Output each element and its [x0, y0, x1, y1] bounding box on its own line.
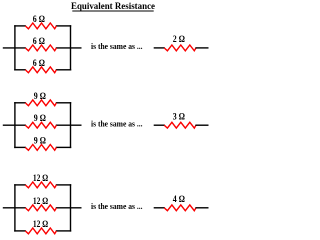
svg-text:12 Ω: 12 Ω	[33, 219, 49, 230]
resistor Req3 4-ohm zigzag	[164, 205, 196, 211]
title underline	[72, 10, 153, 12]
wire bottom branch right group1	[56, 69, 71, 71]
wire top branch left group3	[14, 184, 26, 186]
resistor R1 6-ohm zigzag top branch	[25, 23, 56, 29]
resistor R7 12-ohm zigzag top branch	[25, 182, 56, 188]
resistor R8 12-ohm zigzag middle branch	[25, 205, 56, 211]
wire bottom branch left group3	[14, 230, 26, 232]
wire middle branch right + right lead group1	[56, 47, 82, 49]
wire top branch right group2	[56, 102, 71, 104]
wire right rail group1	[70, 25, 72, 70]
svg-text:Equivalent Resistance: Equivalent Resistance	[71, 2, 155, 12]
svg-text:12 Ω: 12 Ω	[33, 173, 49, 184]
wire left rail group1	[14, 25, 16, 70]
wire left lead equivalent resistor Req2	[154, 124, 165, 126]
svg-text:is the same as ...: is the same as ...	[91, 202, 143, 211]
wire right lead equivalent resistor Req2	[195, 124, 208, 126]
wire bottom branch right group3	[56, 230, 71, 232]
wire right lead equivalent resistor Req3	[195, 207, 208, 209]
resistor R6 9-ohm zigzag bottom branch	[25, 145, 56, 151]
svg-text:9 Ω: 9 Ω	[34, 113, 47, 124]
svg-text:6 Ω: 6 Ω	[33, 14, 46, 25]
svg-text:2 Ω: 2 Ω	[173, 34, 186, 45]
wire top branch left group1	[14, 25, 26, 27]
wire left lead group1	[3, 47, 26, 49]
resistor R9 12-ohm zigzag bottom branch	[25, 228, 56, 234]
svg-text:is the same as ...: is the same as ...	[91, 120, 143, 129]
wire bottom branch left group2	[14, 146, 26, 148]
resistor R5 9-ohm zigzag middle branch	[25, 122, 56, 128]
resistor R4 9-ohm zigzag top branch	[25, 100, 56, 106]
resistor R2 6-ohm zigzag middle branch	[25, 45, 56, 51]
wire left lead group2	[3, 124, 26, 126]
wire right lead equivalent resistor Req1	[195, 47, 208, 49]
resistor Req2 3-ohm zigzag	[164, 122, 196, 128]
wire top branch left group2	[14, 102, 26, 104]
wire right rail group2	[70, 102, 72, 148]
wire middle branch right + right lead group2	[56, 124, 82, 126]
svg-text:6 Ω: 6 Ω	[33, 36, 46, 47]
svg-text:9 Ω: 9 Ω	[34, 91, 47, 102]
wire top branch right group3	[56, 184, 71, 186]
wire bottom branch left group1	[14, 69, 26, 71]
resistor Req1 2-ohm zigzag	[164, 45, 196, 51]
svg-text:12 Ω: 12 Ω	[33, 196, 49, 207]
svg-text:4 Ω: 4 Ω	[173, 194, 186, 205]
wire bottom branch right group2	[56, 146, 71, 148]
wire right rail group3	[70, 184, 72, 231]
wire left rail group2	[14, 102, 16, 148]
svg-text:9 Ω: 9 Ω	[34, 135, 47, 146]
svg-text:is the same as ...: is the same as ...	[91, 42, 143, 51]
svg-text:6 Ω: 6 Ω	[33, 58, 46, 69]
wire left rail group3	[14, 184, 16, 231]
wire left lead equivalent resistor Req1	[154, 47, 165, 49]
wire top branch right group1	[56, 25, 71, 27]
svg-text:3 Ω: 3 Ω	[173, 111, 186, 122]
wire left lead equivalent resistor Req3	[154, 207, 165, 209]
wire middle branch right + right lead group3	[56, 207, 82, 209]
resistor R3 6-ohm zigzag bottom branch	[25, 67, 56, 73]
wire left lead group3	[3, 207, 26, 209]
